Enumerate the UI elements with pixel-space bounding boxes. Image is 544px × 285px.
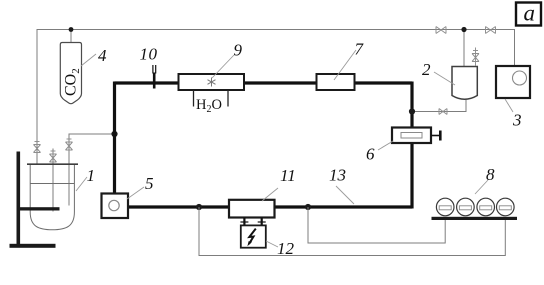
pointer for label 11 xyxy=(262,188,278,201)
valve H1 on top line xyxy=(436,27,446,34)
svg-text:6: 6 xyxy=(366,145,375,164)
meter 8 drum 3 xyxy=(477,198,495,216)
valve V3 on tube C xyxy=(66,139,73,150)
wire thick loop right vertical upper xyxy=(410,82,413,128)
pin water outlet of 9 xyxy=(227,90,229,107)
pin electrode right of 11 xyxy=(261,218,263,229)
svg-text:5: 5 xyxy=(145,174,154,193)
gas meter bank 8 xyxy=(436,198,514,216)
vessel 1 (reaction flask) xyxy=(30,165,74,230)
svg-text:a: a xyxy=(524,1,536,26)
svg-text:2: 2 xyxy=(422,60,431,79)
valve 10 (stopcock on line) xyxy=(153,65,156,89)
meter 8 drum 2 xyxy=(457,198,475,216)
meter shelf bar xyxy=(432,217,518,220)
svg-text:13: 13 xyxy=(329,166,346,185)
lightning bolt inside 12 xyxy=(249,229,256,244)
wire thick loop left vertical xyxy=(113,82,116,195)
wire thick loop top xyxy=(115,81,413,84)
wire vessel2 outlet xyxy=(412,100,466,112)
wire top manifold line xyxy=(37,30,515,145)
meter 8 drum 4 xyxy=(497,198,515,216)
filter 7 xyxy=(317,74,355,90)
svg-text:8: 8 xyxy=(486,165,495,184)
vessel 2 (trap bottle) xyxy=(452,67,477,100)
frame label a xyxy=(516,3,541,26)
vessel 1 rim xyxy=(27,163,78,165)
asterisk inside 9 xyxy=(208,78,216,87)
pointer for label 13 xyxy=(336,186,354,204)
pin water inlet of 9 xyxy=(193,90,195,107)
pointer for label 4 xyxy=(81,54,96,66)
svg-text:10: 10 xyxy=(140,45,158,64)
inner window of 6 xyxy=(401,133,422,139)
valve V1 on tube A xyxy=(34,142,41,153)
valve H3 on vessel2 outlet xyxy=(439,109,447,115)
svg-text:3: 3 xyxy=(512,111,522,130)
pointer for label 6 xyxy=(378,141,393,150)
wire vessel1 tube B xyxy=(52,149,54,212)
pointer for label 8 xyxy=(475,180,488,194)
pointer for label 3 xyxy=(505,99,513,112)
wire vessel1 tube C with bend to pump line xyxy=(69,134,115,206)
window circle of 3 xyxy=(513,71,527,85)
stand clamp arm xyxy=(17,207,60,210)
pin electrode left of 11 xyxy=(243,218,245,229)
pointer for label 9 xyxy=(212,55,234,78)
svg-text:9: 9 xyxy=(234,41,243,60)
pin tick right electrode xyxy=(258,221,266,223)
node junction bottom right xyxy=(305,204,311,210)
pin handle stem of 6 xyxy=(431,135,440,137)
node junction at vessel2 drop xyxy=(461,27,466,32)
heat exchanger 9 xyxy=(179,74,245,90)
svg-text:4: 4 xyxy=(98,46,107,65)
node junction at CO2 stem xyxy=(69,27,74,32)
pin handle bar of 6 xyxy=(439,131,442,141)
pointer for label 12 xyxy=(266,241,278,247)
pin tick left electrode xyxy=(240,221,248,223)
wire sampling line A xyxy=(199,207,505,256)
pointer for label 7 xyxy=(334,50,356,80)
node junction tube C / thick vertical xyxy=(111,131,117,137)
wire CO2 stem xyxy=(70,30,72,43)
wire thick loop right vertical lower xyxy=(410,143,413,209)
node junction outlet / thick vertical xyxy=(409,108,415,114)
flow regulator 6 xyxy=(392,128,431,144)
pointer for label 1 xyxy=(76,177,87,191)
rotor circle of 5 xyxy=(109,200,119,210)
valve V4 on vessel 2 top xyxy=(472,48,479,67)
reactor cell 11 xyxy=(229,200,275,218)
valve V2 on tube B xyxy=(50,151,57,162)
power supply 12 xyxy=(241,225,266,247)
pointer for label 2 xyxy=(434,72,455,85)
svg-text:11: 11 xyxy=(280,166,296,185)
pump 5 xyxy=(102,194,129,219)
pointer for label 5 xyxy=(127,187,144,199)
node junction bottom left xyxy=(196,204,202,210)
gas analyzer 3 xyxy=(496,66,530,98)
wire vessel1 tube A xyxy=(36,144,38,165)
wire sampling line B xyxy=(308,207,445,243)
wire vessel2 inlet drop xyxy=(463,30,465,67)
stand base xyxy=(10,244,56,248)
valve H2 on top line xyxy=(486,27,496,34)
stand rod xyxy=(17,152,21,247)
wire thick loop bottom xyxy=(128,205,412,208)
svg-text:1: 1 xyxy=(87,166,96,185)
cylinder 4 (CO2 bottle) xyxy=(60,43,81,104)
meter 8 drum 1 xyxy=(436,198,454,216)
